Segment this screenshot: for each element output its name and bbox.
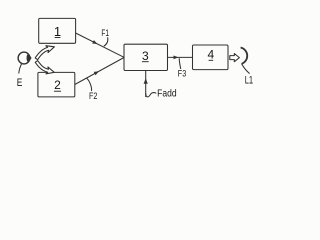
svg-text:3: 3 <box>142 49 149 63</box>
svg-text:L1: L1 <box>245 74 253 86</box>
svg-text:F3: F3 <box>178 69 186 80</box>
svg-text:F1: F1 <box>101 28 109 38</box>
svg-text:1: 1 <box>54 24 61 39</box>
svg-text:Fadd: Fadd <box>157 88 177 99</box>
svg-text:2: 2 <box>54 78 61 92</box>
svg-text:F2: F2 <box>89 91 97 102</box>
svg-text:E: E <box>17 77 23 89</box>
svg-text:4: 4 <box>208 48 215 62</box>
